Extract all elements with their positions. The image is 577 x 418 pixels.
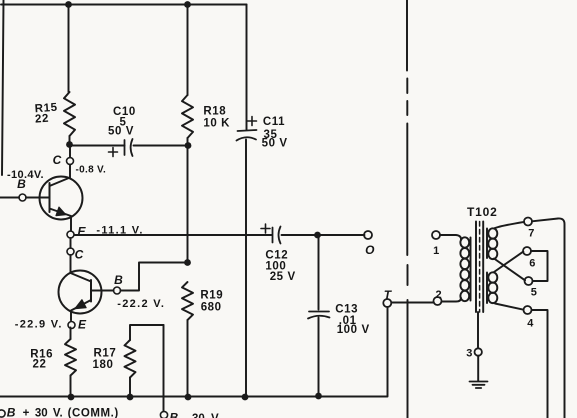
svg-text:C: C <box>53 153 62 167</box>
svg-text:(COMM.): (COMM.) <box>68 408 119 418</box>
terminal B +30V <box>0 410 5 417</box>
svg-text:B: B <box>170 411 179 418</box>
label B +30V (COMM.) <box>7 406 119 418</box>
label B -30V <box>170 411 221 418</box>
transformer T102 secondary winding lower <box>487 272 497 303</box>
wire -30V supply drop <box>163 325 165 411</box>
wire T down and bottom rail <box>0 307 388 397</box>
terminal 5 <box>525 277 533 285</box>
wire top supply rail <box>1 4 247 6</box>
svg-text:22: 22 <box>35 113 50 126</box>
svg-text:2: 2 <box>435 289 441 301</box>
svg-text:30: 30 <box>35 408 48 418</box>
svg-text:100 V: 100 V <box>337 324 370 336</box>
wire E to C connector stack <box>70 238 72 248</box>
svg-text:7: 7 <box>528 228 534 240</box>
svg-text:B: B <box>7 406 16 418</box>
svg-text:R19: R19 <box>200 290 223 302</box>
wire C12 right lead <box>282 234 365 236</box>
terminal B of Q2 <box>114 287 121 294</box>
wire secondary top to terminal 7 <box>494 222 524 229</box>
transformer T102 primary winding <box>460 237 470 301</box>
svg-text:R18: R18 <box>203 106 226 118</box>
terminal 2 <box>434 297 442 305</box>
svg-text:C: C <box>75 248 84 262</box>
terminal 3 <box>475 348 482 355</box>
wire C10 left lead <box>70 145 125 147</box>
wire terminal 1 to primary <box>440 235 461 240</box>
resistor R18 <box>182 5 193 263</box>
terminal B of Q1 <box>19 194 26 201</box>
wire node to collector terminal C <box>69 148 71 158</box>
svg-text:V.: V. <box>211 413 221 418</box>
terminal C of Q2 <box>67 248 74 255</box>
wire terminal 2 to primary <box>442 298 462 302</box>
svg-text:C11: C11 <box>263 116 285 128</box>
svg-text:B: B <box>17 177 26 191</box>
terminal O <box>364 231 372 239</box>
svg-text:-: - <box>184 413 188 418</box>
svg-text:680: 680 <box>201 302 222 314</box>
capacitor C13 branch <box>318 235 320 310</box>
node junction C10/R18 line <box>185 142 192 149</box>
node junction R17/bottom rail <box>127 394 134 401</box>
wire secondary bottom to terminal 4 <box>495 304 524 310</box>
wire left edge vertical <box>2 0 4 175</box>
svg-text:E: E <box>78 318 87 332</box>
capacitor C11 branch wire <box>246 5 248 130</box>
node junction C12/C13 <box>314 232 321 239</box>
svg-text:50 V: 50 V <box>262 138 288 150</box>
resistor R16 <box>65 328 76 397</box>
wire crossover tap to terminal 5 <box>494 259 525 281</box>
wire C11 lower lead <box>245 140 247 397</box>
resistor R17 <box>125 325 164 397</box>
node junction R16/bottom rail <box>68 394 75 401</box>
transistor Q2 <box>59 255 114 320</box>
polarity + of C11 <box>248 117 257 126</box>
resistor R19 <box>182 282 193 320</box>
terminal B -30V <box>160 411 167 418</box>
svg-text:25 V: 25 V <box>270 271 296 283</box>
wire terminal 3 to ground <box>477 356 479 381</box>
wire C10 right lead <box>134 145 188 147</box>
transformer T102 secondary winding upper <box>487 228 497 259</box>
label R15 22 <box>34 102 59 126</box>
transformer core <box>476 222 483 313</box>
svg-text:+: + <box>23 408 30 418</box>
wire core to terminal 3 <box>477 312 479 348</box>
wire base Q2 to R19 node <box>121 263 188 291</box>
svg-text:-22.9 V.: -22.9 V. <box>15 318 63 330</box>
svg-text:B: B <box>114 273 123 287</box>
svg-text:22: 22 <box>33 359 47 371</box>
node junction C11/bottom rail <box>242 394 249 401</box>
terminal E of Q2 <box>68 322 75 329</box>
node junction R18/top rail <box>184 1 191 8</box>
wire link terminals 6 and 5 <box>531 251 548 281</box>
terminal 7 <box>524 218 532 226</box>
terminal T <box>383 299 391 307</box>
svg-text:10 K: 10 K <box>203 117 230 129</box>
ground <box>470 382 488 389</box>
wire C13 lower lead <box>318 318 320 396</box>
wire T to terminal 2 <box>391 302 433 304</box>
svg-text:3: 3 <box>466 348 472 360</box>
polarity + of C12 <box>261 224 270 233</box>
svg-text:6: 6 <box>529 258 535 270</box>
svg-text:R17: R17 <box>94 348 117 360</box>
terminal 6 <box>523 247 531 255</box>
svg-text:180: 180 <box>93 359 114 371</box>
svg-text:-0.8 V.: -0.8 V. <box>76 165 107 176</box>
svg-text:30: 30 <box>192 413 205 418</box>
svg-text:4: 4 <box>527 318 534 330</box>
svg-text:5: 5 <box>531 287 537 299</box>
capacitor C10 <box>125 139 133 156</box>
terminal E of Q1 <box>67 231 74 238</box>
wire -11.1V line to C12 <box>75 234 272 236</box>
node junction R15/top rail <box>65 1 72 8</box>
capacitor C12 <box>273 227 281 244</box>
terminal 1 <box>432 231 440 239</box>
terminal 4 <box>524 306 532 314</box>
node junction R19/bottom rail <box>185 394 192 401</box>
resistor R15 <box>64 5 75 144</box>
transistor Q1 <box>26 165 83 232</box>
node junction R15/C10 <box>66 141 73 148</box>
svg-text:C13: C13 <box>335 303 358 315</box>
capacitor C11 <box>237 130 257 141</box>
polarity + of C10 <box>109 148 118 157</box>
terminal C of Q1 <box>67 158 74 165</box>
node junction base/R19 <box>184 259 191 266</box>
node junction C13/bottom rail <box>315 393 322 400</box>
wire terminal 4 down right <box>532 310 548 418</box>
wire terminal 7 to right edge <box>532 218 565 418</box>
svg-text:-22.2 V.: -22.2 V. <box>117 298 165 310</box>
svg-text:T102: T102 <box>467 205 498 219</box>
svg-text:E: E <box>77 225 86 239</box>
svg-text:V.: V. <box>53 408 63 418</box>
svg-text:1: 1 <box>433 245 439 257</box>
wire base lead from left edge <box>0 197 19 199</box>
capacitor C13 <box>308 312 330 319</box>
wire crossover tap to terminal 6 <box>494 252 523 272</box>
svg-text:O: O <box>365 243 375 257</box>
svg-text:50 V: 50 V <box>108 126 134 138</box>
dashed chassis boundary line <box>406 0 409 418</box>
